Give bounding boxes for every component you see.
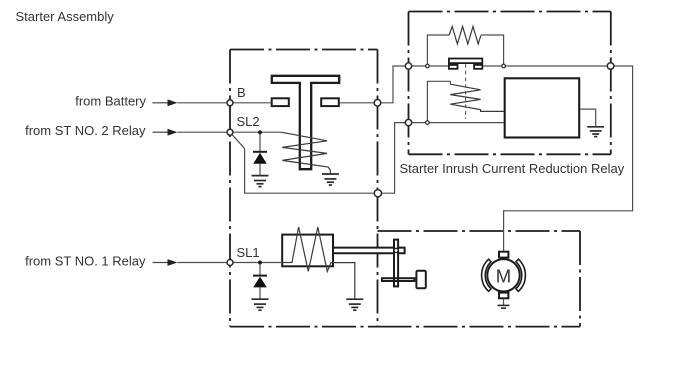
- node inrush left top: [405, 63, 411, 69]
- ground motor: [498, 305, 510, 308]
- svg-text:Starter Inrush Current Reducti: Starter Inrush Current Reduction Relay: [400, 161, 625, 176]
- wire SL2 return to inrush relay: [230, 123, 409, 194]
- svg-text:from Battery: from Battery: [75, 94, 146, 109]
- ground SL2 diode: [252, 176, 269, 187]
- starter inrush current reduction relay outline box: [409, 12, 611, 155]
- svg-text:SL2: SL2: [237, 114, 260, 129]
- shift lever fill: [394, 240, 398, 287]
- arrow from ST NO. 2 Relay: [153, 129, 178, 136]
- wire SL2 feed: [178, 131, 282, 133]
- motor bottom terminal: [499, 293, 508, 299]
- solenoid SL1 spring: [281, 227, 355, 299]
- ground SL1 diode: [252, 299, 269, 310]
- svg-text:SL1: SL1: [237, 245, 260, 260]
- node coil tap left: [426, 121, 430, 125]
- diode D2 at SL2: [253, 152, 267, 164]
- node starter border B out: [374, 100, 381, 107]
- pinion gear knob: [416, 271, 425, 289]
- starter motor compartment outline box: [378, 231, 581, 327]
- pull-in coil around plunger: [281, 132, 330, 174]
- diode D1 at SL1: [253, 276, 267, 288]
- node inrush left bottom: [405, 119, 411, 125]
- svg-text:M: M: [496, 265, 511, 286]
- solenoid SL1 coil box: [282, 235, 333, 267]
- junction dot SL1: [258, 261, 262, 265]
- node SL1: [227, 260, 233, 266]
- svg-text:B: B: [237, 85, 246, 100]
- node inrush right: [607, 63, 614, 70]
- plunger shaft: [334, 248, 405, 254]
- motor top terminal: [499, 252, 508, 258]
- wire inrush relay output to motor: [483, 66, 632, 251]
- wire SL1 diode branch: [259, 263, 261, 300]
- ground pull-in coil: [322, 174, 339, 185]
- svg-text:from ST NO. 2 Relay: from ST NO. 2 Relay: [25, 123, 146, 138]
- dashed mechanical link inrush contact: [465, 64, 467, 119]
- resistor R inrush bypass: [449, 26, 481, 44]
- wire resistor branch: [427, 35, 503, 66]
- contact box right: [321, 98, 339, 106]
- junction dot SL2: [258, 130, 262, 134]
- node resistor tap right: [502, 64, 506, 68]
- svg-text:Starter Assembly: Starter Assembly: [16, 9, 115, 24]
- pinion drive bar fill: [382, 278, 414, 281]
- relay contact bridge inrush: [449, 59, 482, 69]
- wire SL1 feed: [178, 262, 282, 264]
- arrow from ST NO. 1 Relay: [153, 259, 178, 266]
- ground module: [587, 127, 604, 137]
- wire motor to ground: [503, 299, 505, 305]
- node B: [227, 100, 233, 106]
- motor M body circle: [487, 259, 519, 291]
- control module box inrush: [505, 78, 580, 137]
- wire B contact to inrush relay input: [340, 66, 449, 103]
- pinion drive bar outline: [382, 278, 414, 281]
- shift lever outline: [394, 240, 398, 287]
- contact box left B: [272, 98, 289, 106]
- motor M brush right: [516, 259, 525, 291]
- pivot circle on lever: [394, 248, 398, 252]
- wire from Battery to B contact: [178, 102, 271, 104]
- wire module to ground: [580, 109, 596, 127]
- starter assembly outline box: [230, 50, 378, 327]
- node starter border SL2 out: [374, 190, 381, 197]
- wire SL2 diode branch: [259, 132, 261, 175]
- ground SL1 coil: [346, 299, 363, 310]
- wire relay coil branch: [427, 81, 450, 122]
- svg-text:from ST NO. 1 Relay: from ST NO. 1 Relay: [25, 253, 146, 268]
- arrow from Battery: [153, 99, 178, 106]
- motor M brush left: [482, 259, 491, 291]
- node SL2: [227, 129, 233, 135]
- wire inrush lower input to module: [409, 122, 504, 124]
- relay coil L1 inrush: [450, 84, 504, 111]
- plunger T armature: [272, 76, 339, 169]
- node resistor tap left: [426, 64, 430, 68]
